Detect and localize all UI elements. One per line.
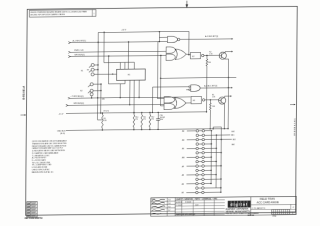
wire base Q1 xyxy=(204,54,219,56)
svg-text:680: 680 xyxy=(102,99,105,101)
wire E3a output xyxy=(200,87,231,89)
svg-text:B 200148: B 200148 xyxy=(185,202,191,204)
connector right wires xyxy=(205,130,212,132)
svg-text:UNLESS OTHERWISE INDICATED RES: UNLESS OTHERWISE INDICATED RES ARE 1/4W … xyxy=(30,11,86,15)
wire input line 6 xyxy=(68,104,164,105)
wire input line 1 xyxy=(71,42,168,43)
svg-text:AH: AH xyxy=(182,139,185,142)
svg-text:A-1 SEL BIT(1): A-1 SEL BIT(1) xyxy=(73,39,87,42)
input A-1 SEL BIT(1) xyxy=(68,42,70,44)
trunk wire V3 xyxy=(108,56,110,84)
wire rail jog to gate E2a xyxy=(159,31,160,32)
svg-text:R12: R12 xyxy=(151,116,154,118)
diode gate box E2 xyxy=(190,52,200,59)
svg-text:AP: AP xyxy=(182,165,185,168)
svg-text:BH2: BH2 xyxy=(232,144,235,146)
resistor R11 xyxy=(141,115,143,128)
+10V rail wire xyxy=(98,30,189,33)
svg-text:WR BUS(1): WR BUS(1) xyxy=(74,54,85,56)
svg-text:ACC CARD ANGIE: ACC CARD ANGIE xyxy=(257,200,279,204)
connector pin row 8 xyxy=(196,160,198,162)
svg-text:4078: 4078 xyxy=(32,203,36,205)
svg-text:BE1: BE1 xyxy=(231,135,234,137)
dist ruler boxes xyxy=(272,209,290,214)
svg-text:R10: R10 xyxy=(135,117,138,119)
svg-text:RS B 901 A-1 ACC: RS B 901 A-1 ACC xyxy=(293,117,296,135)
svg-text:C1H: C1H xyxy=(160,115,163,117)
wire S1 mid to trunk xyxy=(94,69,98,71)
svg-text:9-6: 9-6 xyxy=(168,206,170,208)
wire gate E2a output to bus arrow xyxy=(180,38,232,41)
svg-text:+10 V: +10 V xyxy=(121,30,127,32)
input WR BUS(1) xyxy=(68,55,70,57)
svg-text:E1: E1 xyxy=(128,75,131,77)
connector pin row 15 xyxy=(196,191,198,193)
wire GND bus xyxy=(66,129,213,131)
connector pin row 14 xyxy=(196,187,198,189)
svg-text:WR BUS(0): WR BUS(0) xyxy=(74,103,85,105)
svg-text:BE2: BE2 xyxy=(232,131,235,133)
svg-text:DRB 102: DRB 102 xyxy=(248,215,255,217)
svg-text:MARGIN SPECS AT AC DC: MARGIN SPECS AT AC DC xyxy=(32,170,54,173)
or gate E4c xyxy=(175,98,187,109)
connector pin row 2 xyxy=(196,134,198,136)
connector pin row 3 xyxy=(196,138,198,140)
svg-text:1.5K: 1.5K xyxy=(212,96,216,98)
connector pin row 9 xyxy=(196,165,198,167)
svg-text:B-RS-901-A: B-RS-901-A xyxy=(23,86,26,100)
parts list table xyxy=(175,199,225,202)
svg-text:C: C xyxy=(293,207,295,209)
svg-text:S1: S1 xyxy=(81,70,83,72)
signature grid xyxy=(151,200,176,202)
trunk wire rail to IC top bus xyxy=(103,32,105,62)
svg-text:AX: AX xyxy=(182,191,185,194)
wire input line 4 xyxy=(70,97,190,98)
capacitor C1 xyxy=(157,112,159,118)
cross coupling wire a xyxy=(157,42,159,99)
IC bottom pin 4 wire xyxy=(138,80,140,97)
svg-text:100 MF: 100 MF xyxy=(160,117,165,119)
wire or output xyxy=(186,53,190,56)
resistor R12 xyxy=(149,115,151,128)
connector pin row 12 xyxy=(196,178,198,180)
wire input line 2 xyxy=(70,51,166,52)
connector pin row 4 xyxy=(196,143,198,145)
svg-text:AM: AM xyxy=(182,156,185,159)
connector pin row 10 xyxy=(196,169,198,171)
wire S1 bottom to IC xyxy=(94,73,117,75)
svg-text:A-1 ACC BIT(1): A-1 ACC BIT(1) xyxy=(204,84,218,87)
svg-text:+T WR SEL(0): +T WR SEL(0) xyxy=(71,96,84,98)
svg-text:A 200186: A 200186 xyxy=(176,201,182,204)
wire -15V bus xyxy=(66,112,207,114)
connector trunk C xyxy=(220,127,223,192)
input WR BUS(0) xyxy=(66,104,68,106)
svg-text:4078: 4078 xyxy=(32,209,36,211)
resistor R8 xyxy=(102,115,104,129)
svg-text:DEC FORM NO: DEC FORM NO xyxy=(248,213,260,215)
connector trunk A xyxy=(210,131,212,184)
wire Q2 emitter down xyxy=(223,104,225,129)
wire trunk C to gnd bus xyxy=(212,127,214,129)
connector trunk B xyxy=(215,135,217,188)
connector row3 out wire xyxy=(221,138,232,140)
wire input line 3 xyxy=(70,55,166,56)
wire IC top bus xyxy=(104,61,134,63)
svg-text:4078: 4078 xyxy=(32,206,36,208)
signature squiggles xyxy=(152,199,165,200)
svg-text:GND BLK: GND BLK xyxy=(57,131,66,133)
svg-text:AE: AE xyxy=(182,130,185,133)
IC bottom pin 1 wire xyxy=(124,80,126,84)
svg-text:470: 470 xyxy=(135,119,138,121)
svg-text:R2: R2 xyxy=(209,51,211,53)
svg-text:S2: S2 xyxy=(80,90,82,92)
centering arrow top xyxy=(186,1,188,7)
connector pin row 11 xyxy=(196,174,198,176)
notes box xyxy=(29,10,96,17)
connector pin row 13 xyxy=(196,182,198,184)
svg-text:100: 100 xyxy=(212,106,215,108)
and gate E4a xyxy=(164,97,175,103)
svg-text:100V: 100V xyxy=(160,119,164,121)
diode gate box E3 xyxy=(186,102,191,104)
resistor R5 pulldown xyxy=(209,100,211,103)
connector pin row 5 xyxy=(196,147,198,149)
connector pin row 7 xyxy=(196,156,198,158)
input +T WR SEL(0) xyxy=(68,97,70,99)
svg-text:E3: E3 xyxy=(193,100,195,102)
svg-text:9-6: 9-6 xyxy=(168,203,170,205)
svg-text:(BL B): (BL B) xyxy=(60,133,65,135)
svg-text:100: 100 xyxy=(208,62,211,64)
IC box E1 xyxy=(117,69,146,80)
sheet border frame xyxy=(26,6,298,215)
input PWR CLR xyxy=(68,51,70,53)
svg-text:A-1 BUS BIT(1): A-1 BUS BIT(1) xyxy=(205,35,219,38)
wire G3 feed vertical xyxy=(151,87,153,112)
svg-text:470: 470 xyxy=(106,110,109,112)
svg-text:C 100078: C 100078 xyxy=(176,205,182,207)
svg-text:AU: AU xyxy=(182,183,185,186)
transistor Q1 xyxy=(219,52,226,59)
horizontal wire mid y78 xyxy=(161,76,237,79)
title block outline xyxy=(151,196,297,216)
svg-text:R11: R11 xyxy=(143,116,146,118)
svg-text:1: 1 xyxy=(93,13,94,15)
cross coupling wire b xyxy=(159,55,161,105)
svg-text:470: 470 xyxy=(143,119,146,121)
svg-text:AS: AS xyxy=(182,174,185,177)
svg-text:9-7: 9-7 xyxy=(168,210,170,212)
wire Q1 emitter down xyxy=(225,58,229,60)
svg-text:E2: E2 xyxy=(192,56,194,58)
svg-text:BD2: BD2 xyxy=(233,139,236,141)
connector pin row 1 xyxy=(196,130,198,132)
IC top pin stubs xyxy=(119,62,121,69)
IC bottom pin 2 wire xyxy=(129,80,131,105)
or gate E2d xyxy=(175,49,186,60)
wire S2 mid xyxy=(93,90,101,92)
wire Q1 collector out xyxy=(224,51,226,54)
svg-text:1.5K: 1.5K xyxy=(209,53,213,55)
connector row2 out wire xyxy=(216,134,230,136)
svg-text:470: 470 xyxy=(151,119,154,121)
svg-text:EQUIPMENT CORPORATION: EQUIPMENT CORPORATION xyxy=(226,208,249,211)
wire S1 top to trunk xyxy=(94,64,98,66)
resistor R10 xyxy=(133,115,135,128)
svg-text:1009: 1009 xyxy=(195,205,198,207)
connector pin row 6 xyxy=(196,152,198,154)
svg-text:R5: R5 xyxy=(212,95,214,97)
wire Q2 collector out xyxy=(224,95,226,98)
wire gnd to emitter xyxy=(213,128,228,130)
and gate E2c xyxy=(166,54,175,60)
wire G3 lower input stub xyxy=(186,89,189,91)
svg-text:AK: AK xyxy=(182,147,185,150)
resistor R2 pulldown xyxy=(206,55,208,59)
svg-text:digital: digital xyxy=(230,203,248,207)
digital logo xyxy=(228,201,250,208)
wire S2 trunk xyxy=(100,84,102,113)
trunk wire from rail down to R8 xyxy=(97,32,100,120)
wire rail right drop to E2 input xyxy=(188,31,190,54)
centering arrow right xyxy=(290,104,295,106)
svg-text:9-6: 9-6 xyxy=(168,200,170,202)
centering arrow left xyxy=(20,114,25,116)
and gate E4b xyxy=(164,103,175,109)
wire G3 upper input xyxy=(153,86,189,88)
and gate E3a with bubbles xyxy=(191,85,201,92)
revision table xyxy=(27,202,38,217)
svg-text:-15 V: -15 V xyxy=(59,114,64,116)
wire bend to resistor R8 xyxy=(98,119,103,121)
and gate E2b xyxy=(166,47,175,53)
svg-text:PWR CLR: PWR CLR xyxy=(74,50,84,52)
wire base Q2 xyxy=(205,99,219,101)
IC bottom pin 3 wire xyxy=(133,80,135,113)
svg-text:1.5K: 1.5K xyxy=(104,120,108,122)
svg-text:4078: 4078 xyxy=(32,212,36,214)
wire S2 bottom stub xyxy=(91,96,93,98)
wire S2 top xyxy=(93,83,101,85)
rev cell xyxy=(290,204,292,209)
svg-text:R8: R8 xyxy=(104,118,106,120)
transistor Q2 xyxy=(219,97,226,104)
nand gate E2a xyxy=(167,36,177,42)
